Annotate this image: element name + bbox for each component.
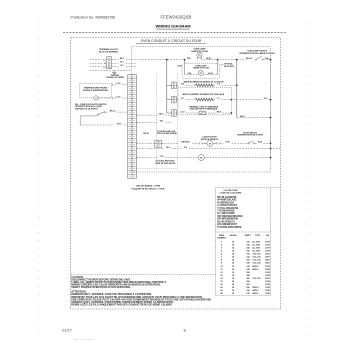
wire feeder to broil plug: [167, 99, 172, 101]
switch S1 oven lamp switch: [255, 56, 263, 60]
wire L2 stub: [90, 66, 102, 68]
wire W-10: [80, 123, 128, 125]
color code header: [220, 190, 242, 195]
wire P-40: [220, 141, 248, 144]
wire element feeder vertical: [166, 60, 168, 113]
svg-text:P-40: P-40: [225, 141, 229, 144]
connector plug bake: [172, 82, 177, 89]
switch S3 door switch: [248, 141, 255, 144]
wire V-30: [111, 83, 127, 86]
svg-text:COL-105: COL-105: [252, 263, 261, 265]
svg-text:BORNE A LA TERRE: BORNE A LA TERRE: [106, 76, 124, 79]
page title WIRING DIAGRAM: [155, 24, 191, 29]
svg-text:W-40: W-40: [208, 72, 213, 75]
svg-text:INTERRUPTEUR DE PORTE: INTERRUPTEUR DE PORTE: [237, 135, 263, 137]
junction right bus bk5: [270, 117, 272, 119]
motor M2 cooling fan: [198, 155, 204, 161]
wire R-7: [176, 98, 195, 100]
callout OPTIONAL: [220, 63, 234, 68]
svg-text:T=TAN/HAVANE: T=TAN/HAVANE: [217, 210, 235, 213]
svg-text:01/17: 01/17: [62, 327, 72, 332]
dashed sub-box bottom: [131, 168, 177, 170]
wire right bus vertical: [270, 60, 272, 158]
temperature probe box: [80, 84, 112, 98]
resistor broil element: [195, 98, 213, 101]
thermal circuit breaker label: [189, 105, 219, 110]
svg-text:BL=BLUE/BLEU: BL=BLUE/BLEU: [217, 221, 235, 223]
svg-text:UL-1007: UL-1007: [252, 251, 261, 253]
svg-text:R-7: R-7: [181, 98, 184, 100]
svg-text:VERIFY PROPER OPERATION AFTER: VERIFY PROPER OPERATION AFTER SERVICING.: [71, 286, 131, 289]
lamp DS1 oven lamp: [191, 48, 209, 60]
svg-text:Y=YELLOW/JAUNE: Y=YELLOW/JAUNE: [217, 207, 239, 210]
svg-text:R=RED/ROUGE: R=RED/ROUGE: [217, 202, 234, 204]
wire BK-2 return: [136, 113, 171, 115]
right margin perforation dots: [308, 22, 311, 335]
svg-text:BK-40: BK-40: [246, 57, 252, 60]
svg-text:BK/W-40: BK/W-40: [182, 141, 190, 144]
svg-text:Publication No. 5995683786: Publication No. 5995683786: [71, 15, 116, 19]
svg-text:BK-40: BK-40: [143, 132, 148, 135]
wire W-4 row: [136, 146, 280, 149]
thermistor RT1: [94, 96, 98, 100]
junction node bus C: [217, 59, 219, 61]
junction right bus mid: [270, 148, 272, 150]
svg-text:T-40: T-40: [187, 57, 191, 60]
svg-text:TEMP C: TEMP C: [244, 235, 252, 237]
connector plug fan rows: [155, 140, 162, 147]
wire gauge table header: [217, 234, 269, 239]
svg-text:SEW-1: SEW-1: [252, 287, 259, 289]
svg-text:V-30: V-30: [116, 83, 120, 85]
junction thermal right: [230, 112, 232, 114]
dashed partition right: [176, 73, 178, 169]
ground wire row: [90, 70, 132, 72]
circuit board connector strip: [128, 75, 137, 179]
svg-text:COL-105: COL-105: [252, 260, 261, 262]
svg-text:SEW-1: SEW-1: [252, 269, 259, 271]
inner circuit dashed border: [131, 47, 270, 172]
svg-text:M: M: [209, 143, 211, 145]
svg-text:PLAQUETTE DE CIRCUIT - FOUR: PLAQUETTE DE CIRCUIT - FOUR: [132, 187, 165, 190]
svg-text:V=VIOLET/VIOLET: V=VIOLET/VIOLET: [217, 205, 238, 207]
wire BK-8: [206, 111, 232, 113]
temperature probe label: [83, 86, 109, 92]
wire fan to bus: [204, 157, 270, 159]
wire R-40: [255, 141, 271, 144]
junction broil right: [230, 99, 232, 101]
wire feeder to bake plug: [167, 84, 172, 86]
terminal block label: [99, 48, 118, 53]
wire L1 stub: [90, 59, 102, 61]
svg-text:UL-1007: UL-1007: [252, 242, 261, 244]
junction node bus D: [236, 59, 238, 61]
svg-text:M: M: [200, 158, 202, 160]
cooling fan low label: [157, 130, 178, 135]
svg-text:REMPLACEZ LES FILS UNIQUEMENT: REMPLACEZ LES FILS UNIQUEMENT PAR DES CO…: [71, 304, 173, 307]
svg-text:W-40: W-40: [206, 57, 211, 60]
latch motor label: [201, 136, 219, 141]
svg-text:T-40: T-40: [187, 72, 191, 75]
color code list: [217, 196, 243, 229]
svg-text:WIRING DIAGRAM: WIRING DIAGRAM: [155, 24, 191, 29]
wire BK-10: [105, 110, 128, 112]
notes box top rule: [71, 274, 216, 276]
svg-text:VENT DE REF BASSE: VENT DE REF BASSE: [157, 132, 178, 135]
switch S2 door latch: [80, 112, 105, 126]
svg-text:SEW-1: SEW-1: [252, 266, 259, 268]
page-wide dashed rule: [63, 32, 287, 34]
wire W-1: [112, 62, 136, 64]
wire BK/W-40: [136, 141, 199, 144]
svg-text:Y-6: Y-6: [217, 84, 220, 86]
junction right bus bottom: [270, 157, 272, 159]
door switch label: [237, 132, 263, 136]
wire broil to right bus: [231, 98, 270, 100]
optional oven lamp dashed box: [182, 64, 220, 79]
wire Y-7: [213, 98, 231, 100]
svg-text:Y-30: Y-30: [116, 96, 120, 98]
svg-text:P=PURPLE/POURPRE: P=PURPLE/POURPRE: [217, 227, 242, 229]
svg-text:FACULTATIF: FACULTATIF: [224, 65, 234, 68]
wire Y-30: [98, 96, 128, 99]
svg-text:LAMPE DU FOUR: LAMPE DU FOUR: [193, 67, 210, 70]
svg-text:W-7: W-7: [264, 98, 268, 100]
svg-text:40 W: 40 W: [177, 65, 181, 68]
svg-text:COL-105: COL-105: [252, 254, 261, 256]
table divider: [216, 231, 271, 233]
svg-text:VENT DE REF HAUTE: VENT DE REF HAUTE: [155, 162, 176, 165]
connector plug thermal: [172, 110, 177, 117]
svg-text:BATTANT DE LA PORTE: BATTANT DE LA PORTE: [75, 107, 98, 110]
wire R-1: [112, 65, 136, 67]
wire inside optional box: [185, 74, 218, 76]
wire drop right from optional lamp: [217, 60, 219, 75]
svg-text:SONDE A TEMPERATURE: SONDE A TEMPERATURE: [83, 89, 109, 92]
junction right bus broil: [270, 99, 272, 101]
wire Y-6: [213, 84, 237, 86]
svg-text:8: 8: [184, 327, 186, 332]
svg-text:BR=BROWN/BRUN: BR=BROWN/BRUN: [217, 219, 238, 221]
wire W-2 return: [136, 121, 171, 123]
wire drop left to optional lamp: [184, 60, 186, 75]
motor M1 latch motor: [203, 140, 213, 146]
connector plug broil: [172, 96, 177, 103]
breaker CB1: [199, 112, 206, 115]
svg-text:SEW-1: SEW-1: [252, 290, 259, 292]
svg-text:CIRCUIT BOARD - OVEN: CIRCUIT BOARD - OVEN: [136, 185, 161, 188]
svg-text:COL-105: COL-105: [252, 257, 261, 259]
connector latch motor right: [213, 142, 220, 144]
dashed partition left: [156, 73, 158, 169]
svg-text:GY=GRAY/GRIS: GY=GRAY/GRIS: [217, 212, 235, 215]
wire T-30: [136, 156, 198, 158]
svg-text:R-40: R-40: [258, 141, 262, 144]
footer dotted mark: [75, 339, 95, 341]
svg-text:Y-7: Y-7: [217, 98, 220, 100]
svg-text:NUMBER: NUMBER: [217, 238, 226, 240]
oven lamp switch label: [239, 50, 275, 55]
ground: [106, 71, 124, 80]
junction node bus B: [184, 59, 186, 61]
cooling fan high label: [155, 160, 176, 165]
svg-text:W=WHITE/BLANC: W=WHITE/BLANC: [217, 199, 237, 202]
junction right bus latch: [270, 143, 272, 145]
wire feeder to thermal plug: [167, 112, 172, 114]
wire gauge table rows: [220, 241, 270, 295]
junction bake right: [236, 84, 238, 86]
svg-text:FFEW2425QSB: FFEW2425QSB: [161, 14, 192, 19]
svg-text:W-10: W-10: [117, 123, 122, 125]
svg-text:COL-105: COL-105: [252, 278, 261, 280]
svg-text:OVEN CONDUIT 1/ CIRCUIT DU FOU: OVEN CONDUIT 1/ CIRCUIT DU FOUR: [141, 39, 202, 43]
svg-text:BK-2: BK-2: [159, 113, 164, 115]
left margin perforation dots: [37, 22, 40, 335]
svg-text:DISJONCTEUR THERMIQUE: DISJONCTEUR THERMIQUE: [190, 109, 218, 111]
svg-text:SEW-1: SEW-1: [252, 293, 259, 295]
wire L2-8: [176, 111, 199, 113]
svg-text:R-6: R-6: [181, 84, 184, 86]
svg-text:T-30: T-30: [160, 156, 164, 158]
svg-text:GN=GREEN/VERT: GN=GREEN/VERT: [217, 224, 237, 226]
wire BK-5 horizontal: [237, 116, 271, 118]
outer diagram dashed border: [71, 38, 281, 310]
svg-text:UL-1007: UL-1007: [252, 248, 261, 250]
svg-text:W-2: W-2: [160, 121, 164, 123]
section title OVEN CONDUIT: [136, 39, 206, 43]
wire switch to right bus: [263, 59, 271, 61]
svg-text:TYPE: TYPE: [255, 235, 261, 237]
wire BK-1 (L1 bus): [112, 58, 246, 60]
svg-text:BK=BLACK/NOIR: BK=BLACK/NOIR: [217, 196, 236, 199]
wire BK-5 vertical: [236, 60, 238, 118]
svg-text:CODE DE COULEURS: CODE DE COULEURS: [220, 193, 242, 195]
door latch switch label: [75, 103, 107, 111]
wire R-6: [176, 84, 195, 86]
resistor bake element: [195, 84, 213, 87]
svg-text:TEMPERATURE PROBE: TEMPERATURE PROBE: [84, 86, 108, 89]
junction node bus A: [166, 59, 168, 61]
svg-text:BK-10: BK-10: [110, 110, 116, 112]
svg-text:INTERRUPTEUR DE LAMPE DU FOUR: INTERRUPTEUR DE LAMPE DU FOUR: [239, 52, 275, 55]
wire N stub: [90, 62, 103, 64]
connector latch motor left: [199, 142, 202, 144]
color code table box: [216, 188, 281, 296]
broil-thermal dashed box: [178, 87, 231, 114]
svg-text:BROIL ELEMENT-ELEMENT DE GRILL: BROIL ELEMENT-ELEMENT DE GRILLAGE: [183, 93, 225, 96]
svg-text:BLOC DE BORNES: BLOC DE BORNES: [99, 52, 118, 54]
svg-text:UL-1007: UL-1007: [252, 245, 261, 247]
circuit board label: [132, 185, 165, 191]
terminal block TB: [107, 57, 112, 69]
svg-text:OR=ORANGE/ORANGE: OR=ORANGE/ORANGE: [217, 215, 243, 218]
svg-text:GAUGE: GAUGE: [230, 234, 238, 237]
junction right bus top: [270, 59, 272, 61]
caution notes text: [71, 276, 212, 307]
lamp DS2 optional oven lamp: [193, 65, 210, 76]
